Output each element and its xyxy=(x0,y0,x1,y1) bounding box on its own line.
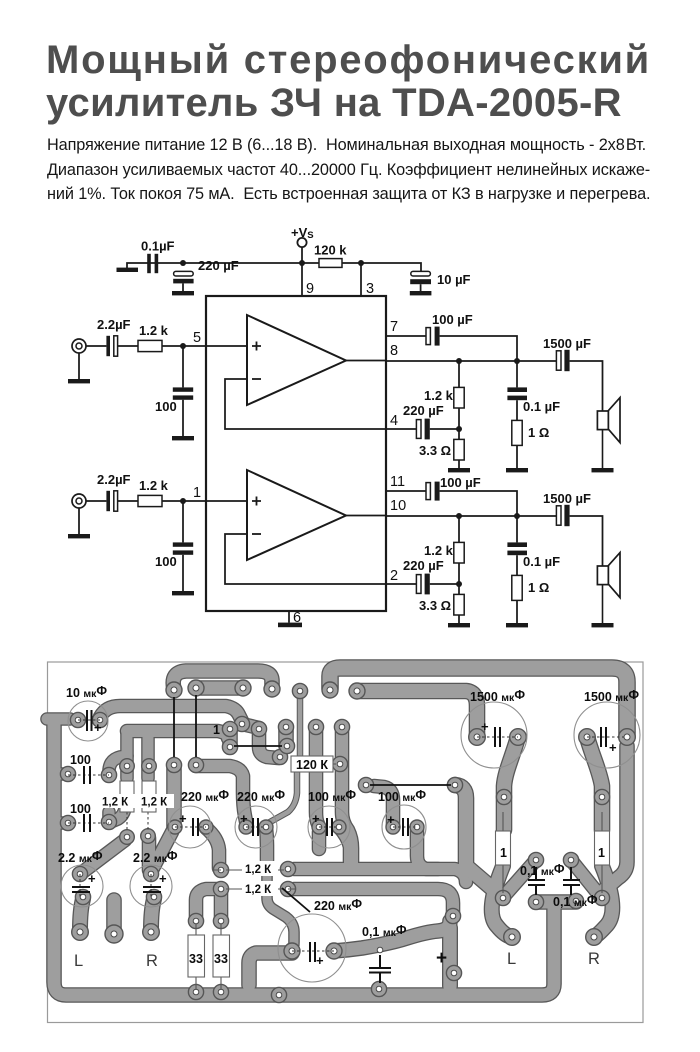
dashed lead 2.2 R xyxy=(150,874,152,898)
junction: pin4 node xyxy=(456,426,462,432)
lead resistor 1 R xyxy=(601,812,603,893)
junction: pin8/R3 node xyxy=(456,358,462,364)
pcb trace: right vertical x466 xyxy=(455,785,501,896)
capacitor C15 0.1uF zobel xyxy=(507,516,527,575)
svg-text:1,2 К: 1,2 К xyxy=(141,797,168,809)
ground G8 (below R5) xyxy=(506,468,528,472)
junction: +Vs node xyxy=(299,260,305,266)
svg-text:1: 1 xyxy=(193,485,201,501)
junction: pin10/zobel node xyxy=(514,513,520,519)
svg-text:1 Ω: 1 Ω xyxy=(528,580,549,595)
speaker LS2 xyxy=(597,553,620,623)
lead resistor 33 a xyxy=(195,924,197,990)
svg-text:1.2 k: 1.2 k xyxy=(424,388,454,403)
svg-text:+: + xyxy=(609,740,617,755)
svg-text:9: 9 xyxy=(306,281,314,297)
svg-text:3: 3 xyxy=(366,281,374,297)
junction: R1 right node xyxy=(358,260,364,266)
svg-text:2.2µF: 2.2µF xyxy=(97,472,131,487)
svg-text:+: + xyxy=(312,811,320,826)
wire: pin 10 output line xyxy=(386,515,556,517)
svg-text:100: 100 xyxy=(155,554,177,569)
capacitor C3 10uF (bootstrap) xyxy=(410,271,431,291)
speaker LS1 xyxy=(597,398,620,468)
ground G2 (below C2) xyxy=(172,291,194,295)
pcb trace: vertical x342 through 120k right pad xyxy=(342,728,352,863)
svg-text:1500 µF: 1500 µF xyxy=(543,336,591,351)
jumper wire J3 xyxy=(234,745,282,747)
label box 1.2 K right b xyxy=(242,881,278,896)
resistor 33 a body xyxy=(188,935,205,977)
junction: pin5 node xyxy=(180,343,186,349)
svg-text:120 k: 120 k xyxy=(314,243,347,258)
pcb trace: right edge vertical xyxy=(604,746,627,890)
op-amp U1a plus xyxy=(252,342,261,351)
ground G13 (below R9) xyxy=(506,623,528,627)
svg-text:1: 1 xyxy=(213,723,220,737)
resistor body 1.2k box a xyxy=(120,781,134,812)
resistor 1 L body xyxy=(496,831,511,865)
svg-text:1 Ω: 1 Ω xyxy=(528,425,549,440)
svg-text:+: + xyxy=(240,811,248,826)
pcb trace: top-left bar with pad drops xyxy=(173,671,272,689)
lead 1.2k right a xyxy=(214,869,284,871)
jumper wire J2 xyxy=(195,695,197,757)
component circle 1500uF L xyxy=(461,702,527,768)
svg-text:11: 11 xyxy=(390,474,405,490)
op-amp U1a minus xyxy=(252,378,261,380)
pcb trace: elbow to 220uF-B left pad xyxy=(196,766,247,827)
ground G1 (left of C1) xyxy=(117,268,139,272)
svg-text:+: + xyxy=(316,953,324,968)
svg-text:+VS: +VS xyxy=(291,225,314,241)
lead 120k xyxy=(324,763,336,765)
label box 1.2 K left b xyxy=(139,794,174,809)
ground G6 (below LS1) xyxy=(592,468,614,472)
dashed lead 100 a xyxy=(68,774,109,776)
pcb trace: vertical x450 to rail xyxy=(443,928,456,986)
svg-text:33: 33 xyxy=(189,952,203,966)
svg-text:10 µF: 10 µF xyxy=(437,272,471,287)
label box 1.2 K right a xyxy=(242,861,278,876)
wire: input 1 to pin 5 xyxy=(86,345,247,347)
pcb trace: 100uF-B left pad riser xyxy=(374,786,393,827)
wire: U1a output to pin 8 xyxy=(346,360,386,362)
svg-text:220 мкФ: 220 мкФ xyxy=(314,897,362,913)
capacitor C2 220uF (supply filter) xyxy=(173,271,193,291)
wire: U1b feedback to pin 2 xyxy=(225,534,417,584)
pcb trace: horizontal bar y869 xyxy=(294,869,466,882)
pcb trace: vertical x316 to 100uF-A left pad xyxy=(316,728,319,827)
component circle 1500uF R xyxy=(574,702,640,768)
capacitor C8 220uF plates (pin4) xyxy=(416,419,459,440)
component circle 10uF xyxy=(68,701,108,741)
svg-text:7: 7 xyxy=(390,319,398,335)
IC U1 TDA2005 body xyxy=(206,296,386,611)
pcb trace: elbow 1.2k box a to pad 109-822 xyxy=(111,800,126,822)
wire: pin 7 bootstrap xyxy=(386,336,517,361)
pcb trace: bottom 220uF output bar xyxy=(334,921,450,951)
pcb trace: bar y731 to capsule xyxy=(127,731,228,738)
svg-text:0.1 µF: 0.1 µF xyxy=(523,554,560,569)
label box 120 K xyxy=(291,756,333,772)
pcb pad holes group xyxy=(65,685,630,998)
svg-text:1.2 k: 1.2 k xyxy=(139,478,169,493)
svg-text:1: 1 xyxy=(500,846,507,860)
capacitor C4 2.2uF plates xyxy=(106,336,117,356)
pcb trace: 2.2uF-L drop xyxy=(80,899,83,930)
capacitor C7 1500uF plates xyxy=(556,350,602,411)
lead 1.2k right b xyxy=(226,888,296,890)
junction: pin1 node xyxy=(180,498,186,504)
svg-text:220 мкФ: 220 мкФ xyxy=(181,788,229,804)
svg-text:1.2 k: 1.2 k xyxy=(424,543,454,558)
svg-text:33: 33 xyxy=(214,952,228,966)
svg-text:1500 мкФ: 1500 мкФ xyxy=(470,688,525,704)
hole in bar for 0.1uF bottom xyxy=(377,947,383,953)
svg-text:8: 8 xyxy=(390,343,398,359)
resistor R8 3.3 ohm xyxy=(454,584,464,623)
svg-text:100: 100 xyxy=(70,753,91,767)
pcb trace: right 1500uF output chain xyxy=(587,737,602,830)
svg-text:4: 4 xyxy=(390,413,398,429)
lead 220uF bottom diagonal xyxy=(282,888,310,912)
capacitor symbol 220uF bottom xyxy=(310,942,315,962)
wire: pin 11 bootstrap xyxy=(386,491,517,516)
wire: U1a feedback to pin 4 xyxy=(225,379,417,429)
component circle 220uF bottom xyxy=(278,914,346,982)
svg-text:+: + xyxy=(94,720,102,735)
capacitor symbol 1500uF L xyxy=(495,727,500,747)
pcb trace: 220uF-A right pad to 1.2k pad xyxy=(206,828,219,868)
component circle 100uF A xyxy=(308,806,350,848)
pcb trace: center T bar xyxy=(536,896,576,909)
svg-text:0.1 µF: 0.1 µF xyxy=(523,399,560,414)
pcb trace: stub below 100uF-A left pad xyxy=(313,832,325,849)
label box 1.2 K left a xyxy=(100,794,135,809)
svg-text:100 мкФ: 100 мкФ xyxy=(378,788,426,804)
component circle 220uF A xyxy=(169,806,211,848)
svg-text:1,2 К: 1,2 К xyxy=(245,884,272,896)
junction: pin10/R7 node xyxy=(456,513,462,519)
svg-text:1.2 k: 1.2 k xyxy=(139,323,169,338)
pcb trace: rail nub a xyxy=(56,769,64,780)
capacitor symbol 0.1uF L with leads xyxy=(528,867,545,895)
component circle 220uF B xyxy=(235,806,277,848)
resistor body 1.2k box b xyxy=(142,781,156,812)
pcb trace: 0.1uF-R diagonal xyxy=(571,860,600,896)
junction: pin2 node xyxy=(456,581,462,587)
svg-text:100 µF: 100 µF xyxy=(432,312,473,327)
pcb trace: 0.1uF-L diagonal xyxy=(505,860,536,895)
capacitor C5 100 (pin5 to gnd) xyxy=(173,346,193,436)
svg-text:220 µF: 220 µF xyxy=(198,258,239,273)
dashed lead 1.2k box b xyxy=(147,812,149,830)
pcb trace: 100uF-B right pad drop xyxy=(417,827,438,869)
component circle 2.2uF L xyxy=(61,865,103,907)
svg-text:100: 100 xyxy=(70,802,91,816)
svg-text:R: R xyxy=(146,952,158,970)
dashed lead 1500 L xyxy=(477,736,518,738)
capacitor C9 0.1uF zobel xyxy=(507,361,527,420)
pcb trace: bottom 220uF left pad to rail xyxy=(249,953,292,985)
PCB board outline xyxy=(48,662,644,1023)
junction: pin8/zobel node xyxy=(514,358,520,364)
svg-text:100 мкФ: 100 мкФ xyxy=(308,788,356,804)
svg-text:3.3 Ω: 3.3 Ω xyxy=(419,443,451,458)
svg-text:+: + xyxy=(159,871,167,886)
ground G12 (below R8) xyxy=(448,623,470,627)
svg-text:5: 5 xyxy=(193,330,201,346)
capacitor symbol 2.2uF R xyxy=(143,887,161,892)
capacitor symbol 220uF A xyxy=(193,818,198,836)
capacitor C11 100 (pin1 to gnd) xyxy=(173,501,193,591)
dashed lead 1500 R xyxy=(587,736,627,738)
op-amp U1b plus xyxy=(252,497,261,506)
dashed lead 10uF xyxy=(78,719,100,721)
jumper wire J1 xyxy=(173,697,175,757)
svg-text:2.2µF: 2.2µF xyxy=(97,317,131,332)
pcb trace: narrow link to bottom 220uF xyxy=(267,862,294,951)
svg-text:10: 10 xyxy=(390,498,406,514)
pcb trace: left 1500uF output chain xyxy=(504,737,518,830)
pcb trace: rail nub b xyxy=(56,818,64,829)
pcb trace: drop to 33 pad b xyxy=(215,893,227,917)
pcb trace: thin track lower to 220uF-B xyxy=(270,772,297,822)
ground G7 (below R4) xyxy=(448,468,470,472)
ground G10 (below C11) xyxy=(172,591,194,595)
pcb trace: drop to 33 pad a xyxy=(196,889,221,917)
pcb trace: dog-leg to 120k left xyxy=(259,729,278,758)
capacitor C14 220uF plates (pin2) xyxy=(416,574,459,595)
svg-text:1500 µF: 1500 µF xyxy=(543,491,591,506)
dashed lead mid caps xyxy=(175,826,417,828)
capacitor C13 1500uF plates xyxy=(556,505,602,566)
wire: pin 9 drop xyxy=(301,263,303,296)
capacitor symbol 100 a xyxy=(84,766,90,784)
wire: U1b output to pin 10 xyxy=(346,515,386,517)
wire: top supply rail xyxy=(127,263,421,271)
pcb trace: short top bar xyxy=(196,682,243,695)
input jack X2 xyxy=(72,494,86,534)
resistor R2 1.2k xyxy=(138,340,162,351)
svg-text:220 мкФ: 220 мкФ xyxy=(237,788,285,804)
svg-text:0.1µF: 0.1µF xyxy=(141,239,175,254)
pcb trace: horizontal bar y889 xyxy=(294,889,453,915)
svg-text:100 µF: 100 µF xyxy=(440,475,481,490)
dashed lead 1.2k box a xyxy=(126,812,128,831)
wire: input 2 to pin 1 xyxy=(86,500,247,502)
svg-text:2: 2 xyxy=(390,568,398,584)
capacitor symbol 0.1uF bottom with leads xyxy=(369,955,391,983)
lead resistor 1 L xyxy=(502,812,504,893)
svg-text:100: 100 xyxy=(155,399,177,414)
capacitor symbol 10uF xyxy=(87,710,92,731)
input jack X1 xyxy=(72,339,86,379)
resistor R9 1 ohm zobel xyxy=(512,575,522,623)
pcb trace: stub pad 113 xyxy=(108,900,121,934)
pcb trace: rail stub from board edge xyxy=(47,714,70,725)
pcb trace: left and bottom ground rail xyxy=(54,724,554,995)
ground G11 (below LS2) xyxy=(592,623,614,627)
svg-text:1500 мкФ: 1500 мкФ xyxy=(584,688,639,704)
pcb trace: 100uF-A right pad drop xyxy=(339,827,350,863)
resistor R6 1.2k xyxy=(138,495,162,506)
op-amp U1a triangle xyxy=(247,315,346,405)
capacitor C1 0.1uF plates xyxy=(147,254,158,273)
dashed lead 2.2 L xyxy=(79,874,81,898)
pcb trace: left output to L pad xyxy=(492,866,512,937)
capacitor symbol 220uF B xyxy=(253,818,258,836)
ground G5 (below C5) xyxy=(172,436,194,440)
pcb trace: capsule x286 xyxy=(280,727,293,746)
pcb trace: elbow link xyxy=(242,724,259,728)
jumper wire J4 xyxy=(370,784,451,786)
pcb trace: long top rail to right 1500uF xyxy=(330,668,627,737)
svg-text:+: + xyxy=(436,948,447,969)
svg-text:+: + xyxy=(88,871,96,886)
pcb trace: capsule to 220uF-A left pad xyxy=(168,765,181,827)
pcb trace: diagonal from 2.2uF-L xyxy=(80,840,125,874)
pcb trace: thin track from pad 300 upper xyxy=(298,697,303,756)
pcb trace: vertical from bar y729 into 1.2k box b xyxy=(143,731,154,778)
svg-text:220 µF: 220 µF xyxy=(403,558,444,573)
resistor 1 R body xyxy=(595,831,610,865)
pcb trace: 1.2k box b pad down to 2.2uF-R xyxy=(143,838,155,870)
resistor 33 b body xyxy=(213,935,230,977)
dashed lead 100 b xyxy=(68,822,109,824)
ground G3 (below C3) xyxy=(410,291,432,295)
ground G4 (jack X1) xyxy=(68,379,90,383)
pcb trace: capsule x230 xyxy=(224,729,237,746)
capacitor C6 100uF plates xyxy=(426,327,440,346)
svg-text:220 µF: 220 µF xyxy=(403,403,444,418)
dashed lead 220 bottom xyxy=(292,950,334,952)
resistor R4 3.3 ohm xyxy=(454,429,464,468)
pcb trace: vertical from bar y729 into 1.2k box a xyxy=(122,731,133,778)
pcb trace: right output to R pad xyxy=(594,866,612,937)
resistor R7 1.2k feedback xyxy=(454,516,464,584)
component circle 100uF B xyxy=(382,805,426,849)
svg-text:L: L xyxy=(74,952,83,970)
capacitor symbol 0.1uF R with leads xyxy=(563,867,580,895)
pcb trace: bar y706 from 10uF xyxy=(100,706,242,721)
capacitor symbol 2.2uF L xyxy=(72,887,90,892)
terminal +Vs xyxy=(297,238,306,263)
svg-text:R: R xyxy=(588,950,600,968)
ground G9 (jack X2) xyxy=(68,534,90,538)
wire: pin 3 drop xyxy=(360,263,362,296)
capacitor symbol 1500uF R xyxy=(601,727,606,747)
resistor R1 120k xyxy=(319,259,342,268)
svg-text:1,2 К: 1,2 К xyxy=(102,797,129,809)
resistor R3 1.2k feedback xyxy=(454,361,464,429)
svg-text:1: 1 xyxy=(598,846,605,860)
capacitor symbol 100 b xyxy=(84,814,90,832)
pcb trace: 220uF-B right pad drop xyxy=(266,828,267,860)
pcb trace outlines layer xyxy=(47,668,627,995)
svg-text:+: + xyxy=(179,811,187,826)
pcb trace: riser from 100 pad b xyxy=(104,812,115,822)
svg-text:+: + xyxy=(481,719,489,734)
capacitor C12 100uF plates xyxy=(426,482,440,501)
svg-text:3.3 Ω: 3.3 Ω xyxy=(419,598,451,613)
pcb trace: 2.2uF-R drop xyxy=(151,899,154,930)
svg-text:+: + xyxy=(387,812,395,827)
pcb trace: second top rail to left 1500uF xyxy=(357,691,477,737)
capacitor symbol 100uF B xyxy=(403,818,408,836)
resistor R5 1 ohm zobel xyxy=(512,420,522,468)
capacitor C10 2.2uF plates xyxy=(106,491,117,511)
svg-text:1,2 К: 1,2 К xyxy=(245,864,272,876)
ground G14 (pin 6) xyxy=(278,623,302,628)
pcb trace: diagonal 2.2uF-R to 220uF-A left xyxy=(151,832,172,872)
wire: pin 8 output line xyxy=(386,360,556,362)
lead resistor 33 b xyxy=(220,924,222,990)
pcb pads group xyxy=(60,680,635,1003)
op-amp U1b minus xyxy=(252,533,261,535)
svg-text:L: L xyxy=(507,950,516,968)
svg-text:120 К: 120 К xyxy=(296,758,328,772)
wire: pin 6 ground xyxy=(288,611,290,623)
pcb trace: elbow pad109 up to vertical xyxy=(109,756,127,774)
op-amp U1b triangle xyxy=(247,470,346,560)
component circle 2.2uF R xyxy=(130,865,172,907)
capacitor symbol 100uF A xyxy=(327,818,332,836)
junction: rail/C2 node xyxy=(180,260,186,266)
